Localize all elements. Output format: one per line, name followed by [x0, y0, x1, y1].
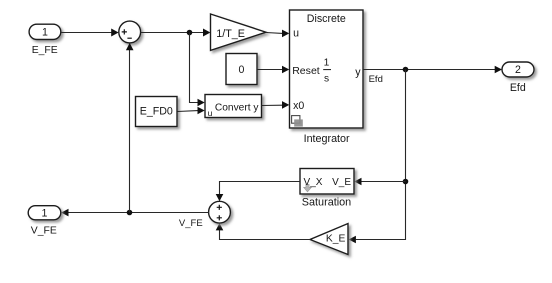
saturation block: [300, 169, 354, 195]
wire Convert to x0: [262, 101, 290, 109]
junction dot: [187, 30, 193, 36]
junction dot feedback: [403, 179, 409, 185]
constant E_FD0: [136, 97, 178, 127]
svg-text:V_X: V_X: [304, 177, 323, 188]
svg-text:1/T_E: 1/T_E: [216, 28, 245, 40]
svg-text:s: s: [324, 74, 329, 85]
svg-text:Discrete: Discrete: [307, 13, 346, 25]
feedback wire down from Efd node to K_E: [349, 70, 406, 244]
svg-text:1: 1: [324, 57, 330, 68]
svg-text:1: 1: [42, 207, 48, 219]
wire K_E to sum2 bottom: [216, 223, 310, 239]
svg-text:Convert y: Convert y: [215, 102, 260, 113]
svg-text:Efd: Efd: [369, 74, 383, 85]
svg-text:u: u: [208, 108, 213, 118]
wire 0 to Reset: [257, 66, 289, 74]
wire E_FD0 to Convert u port: [178, 107, 205, 115]
wire gain to u: [266, 30, 289, 38]
svg-text:0: 0: [239, 64, 245, 76]
wire Saturation to sum2 top: [216, 182, 300, 202]
sum block Sum1 (+ -): [119, 21, 141, 43]
integrator block U1: [290, 10, 364, 128]
outport 2 Efd: [502, 62, 534, 77]
wire sum1 to gain: [141, 29, 211, 37]
svg-text:V_E: V_E: [332, 177, 351, 188]
convert block (Data Type Conversion Inherited): [205, 95, 262, 119]
junction dot on y wire: [403, 67, 409, 73]
wire y output to outport 2: [363, 66, 502, 74]
svg-text:Integrator: Integrator: [304, 133, 350, 145]
constant 0: [226, 54, 257, 85]
wire node to Saturation: [354, 178, 405, 186]
outport 1 V_FE: [28, 206, 61, 220]
svg-text:E_FE: E_FE: [32, 45, 58, 56]
feedback wire up to sum1 minus: [126, 43, 134, 213]
integrator preview badge icon: [292, 116, 300, 124]
svg-text:V_FE: V_FE: [31, 225, 57, 236]
inport 1 E_FE: [29, 24, 61, 39]
svg-text:Reset: Reset: [292, 65, 320, 77]
svg-text:x0: x0: [293, 100, 304, 112]
svg-text:K_E: K_E: [326, 233, 346, 244]
wire branch to Convert top port: [190, 33, 205, 107]
svg-text:2: 2: [515, 64, 521, 76]
sum block Sum2 (+ +): [209, 201, 231, 223]
svg-text:V_FE: V_FE: [179, 218, 203, 229]
wire inport to sum1: [61, 29, 119, 37]
svg-text:E_FD0: E_FD0: [140, 106, 173, 118]
gray signal arrow: [304, 184, 312, 192]
svg-text:Efd: Efd: [510, 82, 526, 94]
svg-text:y: y: [355, 66, 361, 78]
gain 1/T_E: [211, 14, 267, 50]
gain K_E: [310, 224, 348, 255]
svg-text:u: u: [293, 27, 299, 39]
svg-text:Saturation: Saturation: [302, 196, 351, 208]
svg-text:1: 1: [42, 27, 48, 39]
junction dot bottom: [127, 210, 133, 216]
wire sum2 to outport 1: [61, 209, 208, 217]
